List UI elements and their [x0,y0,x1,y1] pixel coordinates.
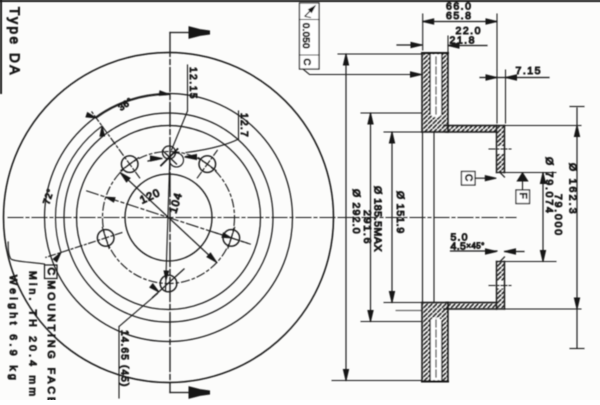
dimension 7.15 [480,65,549,123]
slash through bottom hole [153,269,185,298]
svg-text:Ø 162.3: Ø 162.3 [567,163,579,216]
reference hole tick marks [161,149,178,166]
chamfer dimension 5.0 / 4.5x45 [451,232,525,255]
bolt hole centerline ticks on flange [489,149,513,286]
svg-text:291.6: 291.6 [361,210,373,245]
front view horizontal centerline [8,217,336,219]
leader/label 12.15 [172,65,199,150]
web hatching bottom [446,303,497,310]
datum F flag [516,173,530,204]
svg-text:MOUNTING FACE: MOUNTING FACE [45,281,57,401]
36 degree arc dimension [86,91,170,118]
svg-text:12.15: 12.15 [187,67,198,100]
vent vane dashed lines [435,57,437,378]
svg-text:12.7: 12.7 [238,113,249,138]
bolt-hole diameter reference circle top [163,146,176,159]
braking surface inner circle [45,94,293,342]
dimension 22.0 / 21.8 [397,25,487,52]
bolt hole right [215,227,247,248]
svg-text:Ø 185.5MAX: Ø 185.5MAX [372,186,384,252]
dimension dia 162.3 [505,107,585,349]
svg-text:Type DA: Type DA [7,7,22,77]
section axis centerline [338,217,516,219]
section arrow top [170,27,210,38]
web outlines [444,126,497,310]
svg-text:65.8: 65.8 [446,10,472,22]
dimension 66.0 / 65.8 [423,1,497,71]
svg-text:79.000: 79.000 [552,194,564,237]
band section hatching bottom [422,303,448,382]
band outlines [422,53,448,382]
datum C flag with MOUNTING FACE label [8,242,57,279]
svg-text:C: C [463,174,474,181]
dimension dia 185.5MAX [361,113,421,322]
72 degree arc dimension [53,126,104,262]
section arrow bottom [170,387,210,398]
runout feature control frame [300,3,422,77]
svg-text:Ø 151.9: Ø 151.9 [394,191,406,234]
disc outer circle [4,53,334,383]
bolt circle (dashed) [103,152,235,284]
center bore circle [125,174,212,261]
svg-text:14.65 (45): 14.65 (45) [119,330,130,388]
flange outlines [497,126,505,310]
dimension dia 79.074/79.000 [505,157,565,262]
datum C flag section [462,172,497,186]
leader/label 12.7 [186,111,249,153]
front view vertical centerline [169,33,171,393]
projection lines between band halves [423,132,435,303]
svg-text:C: C [45,268,57,276]
svg-text:Ø 292.0: Ø 292.0 [350,189,362,235]
bolt hole upper-left [92,112,140,178]
vent slot top (white) [430,55,442,118]
svg-text:F: F [517,193,528,199]
hat outer circle [77,126,261,310]
diameter arrows at top reference hole [148,155,197,162]
label 14.65 (45) [119,327,130,399]
web hatching top [446,126,497,133]
vent slot bottom (white) [430,318,442,380]
flange hatching segments [497,126,505,147]
bolt hole upper-right [197,150,217,178]
web lower-left extension line [396,310,422,312]
band section hatching top [422,53,448,132]
bolt hole left [46,227,122,257]
dimension dia 151.9 [384,132,421,303]
bolt hole bottom [160,275,177,292]
dimension line 104 (to bottom hole) [164,153,170,291]
leader for 14.65 label [119,284,159,327]
svg-text:C: C [301,59,312,66]
dimension dia 292.0/291.6 [332,54,421,381]
svg-text:7.15: 7.15 [516,65,542,77]
svg-text:Min. TH 20.4 mm: Min. TH 20.4 mm [27,271,39,399]
page border left [0,0,2,93]
svg-text:Weight 6.9 kg: Weight 6.9 kg [7,275,19,383]
vent inner circle [64,113,273,322]
svg-text:0.050: 0.050 [300,23,311,49]
page border top [0,0,600,2]
hole-to-hole centerline 18deg [87,191,251,244]
dimension line 120 (bolt circle diameter) [120,173,217,263]
